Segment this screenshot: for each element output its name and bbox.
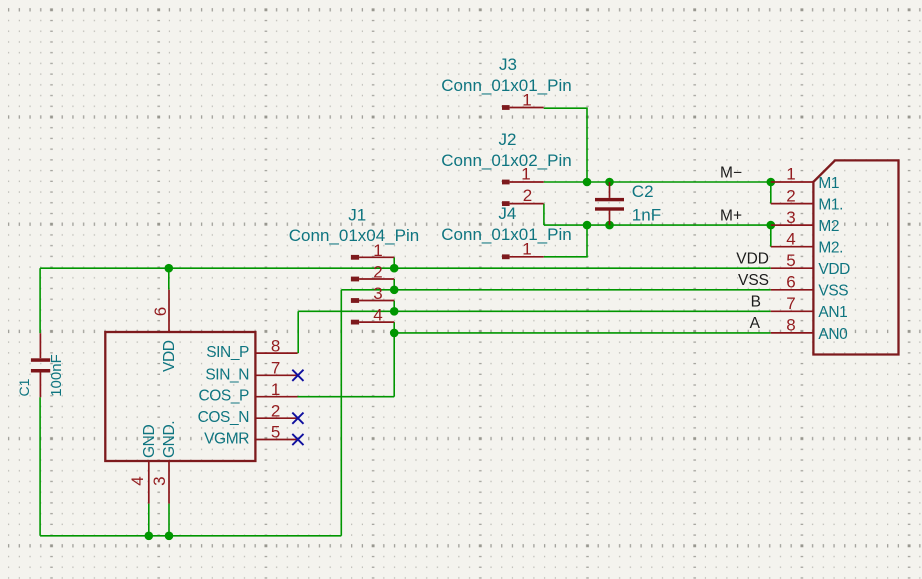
svg-text:7: 7 (786, 294, 795, 313)
J2 pin 2 symbol (502, 201, 510, 206)
J1 pin 4 symbol (351, 320, 359, 325)
svg-text:2: 2 (523, 186, 532, 205)
svg-text:SIN_N: SIN_N (205, 366, 249, 383)
J4 pin 1 symbol (502, 254, 510, 259)
wire COS_P riser to net A (393, 333, 395, 397)
wire J1 pin4 elbow (393, 322, 395, 333)
wire C1 top vertical (39, 268, 41, 333)
svg-text:J2: J2 (499, 130, 517, 149)
IC pin 5 (VGMR) stub (255, 439, 297, 441)
svg-text:COS_N: COS_N (198, 409, 249, 426)
svg-text:J4: J4 (498, 204, 516, 223)
junction dot 7 (605, 178, 614, 187)
right connector pin 6 stub (771, 289, 814, 291)
svg-text:COS_P: COS_P (198, 388, 249, 405)
wire IC pin6 riser (168, 268, 170, 290)
wire J1 pin1 elbow (393, 257, 395, 268)
wire jog pin3-pin4 right connector (770, 225, 772, 247)
capacitor C2 bottom stub (609, 210, 611, 225)
svg-text:5: 5 (271, 423, 280, 442)
svg-text:6: 6 (786, 273, 795, 292)
wire SIN_P riser (297, 311, 299, 353)
svg-text:M2.: M2. (818, 240, 843, 257)
wire J1 pin3 elbow (393, 301, 395, 312)
right connector pin 4 stub (771, 246, 814, 248)
right connector pin 5 stub (771, 267, 814, 269)
wire M- net horizontal y=182 (544, 181, 771, 183)
junction dot 1 (165, 264, 174, 273)
wire net B horizontal y=311 (298, 310, 771, 312)
IC pin 7 (SIN_N) stub (255, 374, 297, 376)
svg-text:M1: M1 (818, 175, 839, 192)
wire GND riser to VSS row (340, 290, 342, 536)
svg-text:Conn_01x01_Pin: Conn_01x01_Pin (441, 225, 571, 244)
svg-text:1: 1 (271, 380, 280, 399)
capacitor C1 bottom stub (39, 373, 41, 398)
J1 pin 1 symbol (351, 255, 359, 260)
junction dot 12 (145, 532, 154, 541)
svg-text:4: 4 (128, 476, 147, 485)
svg-text:1nF: 1nF (632, 205, 661, 224)
no-connect X at pin y=375 (292, 370, 303, 381)
svg-text:4: 4 (373, 306, 382, 325)
svg-text:Conn_01x01_Pin: Conn_01x01_Pin (441, 76, 571, 95)
no-connect X at pin y=418 (292, 413, 303, 424)
J1 pin 2 symbol (351, 277, 359, 282)
svg-text:VDD: VDD (818, 261, 850, 278)
IC pin 8 (SIN_P) stub (255, 352, 297, 354)
svg-text:B: B (751, 293, 761, 310)
wire jog pin1-pin2 right connector (770, 182, 772, 204)
svg-text:2: 2 (786, 186, 795, 205)
svg-text:3: 3 (373, 284, 382, 303)
svg-text:4: 4 (786, 229, 795, 248)
wire M+ net horizontal y=225 (544, 224, 771, 226)
svg-text:VSS: VSS (738, 272, 769, 289)
wire VSS net horizontal y=290 (341, 289, 771, 291)
svg-text:3: 3 (786, 208, 795, 227)
svg-text:J3: J3 (499, 55, 517, 74)
svg-text:1: 1 (521, 164, 530, 183)
svg-text:C1: C1 (16, 378, 32, 396)
wire COS_P horizontal (297, 396, 394, 398)
svg-text:2: 2 (373, 263, 382, 282)
svg-text:1: 1 (522, 90, 531, 109)
svg-text:M−: M− (720, 165, 742, 182)
junction dot 3 (390, 286, 399, 295)
svg-text:1: 1 (786, 165, 795, 184)
J3 pin 1 symbol (502, 105, 510, 110)
IC (magnetic encoder) body outline (105, 332, 255, 461)
svg-text:AN0: AN0 (818, 326, 848, 343)
capacitor C1 top stub (39, 333, 41, 358)
svg-text:VSS: VSS (818, 283, 848, 300)
svg-text:2: 2 (271, 401, 280, 420)
svg-text:A: A (750, 315, 761, 332)
wire GND bottom rail (40, 535, 341, 537)
right connector pin 3 stub (771, 224, 814, 226)
wire IC pin3 drop (168, 504, 170, 536)
junction dot 11 (767, 221, 776, 230)
svg-text:VDD: VDD (736, 250, 769, 267)
svg-text:C2: C2 (632, 182, 654, 201)
IC pin 3 stub (bottom) (168, 461, 170, 504)
wire J3 pin1 to M- net (544, 108, 587, 182)
J2 pin 1 symbol (502, 180, 510, 185)
capacitor C2 plates (595, 198, 624, 201)
svg-text:7: 7 (271, 359, 280, 378)
capacitor C2 top stub (609, 182, 611, 198)
right connector pin 8 stub (771, 332, 814, 334)
svg-text:Conn_01x04_Pin: Conn_01x04_Pin (289, 226, 419, 245)
wire C1 bottom vertical (39, 397, 41, 536)
right connector pin 7 stub (771, 310, 814, 312)
svg-text:VDD: VDD (161, 340, 178, 372)
junction dot 8 (583, 221, 592, 230)
junction dot 10 (767, 178, 776, 187)
svg-text:M+: M+ (720, 207, 742, 224)
svg-text:6: 6 (151, 307, 170, 316)
no-connect X at pin y=440 (292, 434, 303, 445)
J1 pin 3 symbol (351, 298, 359, 303)
svg-text:J1: J1 (348, 206, 366, 225)
svg-text:GND: GND (141, 425, 158, 458)
svg-text:Conn_01x02_Pin: Conn_01x02_Pin (441, 151, 571, 170)
wire net A horizontal y=333 (394, 332, 771, 334)
svg-text:M2: M2 (818, 218, 839, 235)
svg-text:AN1: AN1 (818, 304, 847, 321)
junction dot 9 (605, 221, 614, 230)
svg-text:5: 5 (786, 251, 795, 270)
wire VDD net horizontal rail y=268 (40, 267, 771, 269)
wire J4 pin1 riser to M+ net (544, 225, 587, 257)
svg-text:SIN_P: SIN_P (206, 344, 249, 361)
right connector pin 2 stub (771, 203, 814, 205)
svg-text:8: 8 (786, 316, 795, 335)
connector (8-pin, right) body outline (813, 160, 898, 354)
wire J2 pin2 elbow down (543, 204, 545, 226)
junction dot 6 (583, 178, 592, 187)
junction dot 5 (390, 329, 399, 338)
svg-text:M1.: M1. (818, 197, 843, 214)
svg-text:8: 8 (271, 336, 280, 355)
svg-text:100nF: 100nF (48, 354, 65, 397)
svg-text:VGMR: VGMR (204, 431, 249, 448)
junction dot 2 (390, 264, 399, 273)
junction dot 4 (390, 307, 399, 316)
junction dot 13 (165, 532, 174, 541)
wire IC pin4 drop (148, 504, 150, 536)
svg-text:GND.: GND. (161, 421, 178, 458)
svg-text:3: 3 (150, 476, 169, 485)
capacitor C1 plates (31, 358, 50, 362)
wire J1 pin2 elbow (393, 279, 395, 290)
IC pin 1 (COS_P) stub (255, 396, 297, 398)
svg-text:1: 1 (373, 241, 382, 260)
IC pin 2 (COS_N) stub (255, 417, 297, 419)
right connector pin 1 stub (771, 181, 814, 183)
IC pin 6 stub (top) (168, 290, 170, 332)
IC pin 4 stub (bottom) (148, 461, 150, 504)
svg-text:1: 1 (522, 240, 531, 259)
